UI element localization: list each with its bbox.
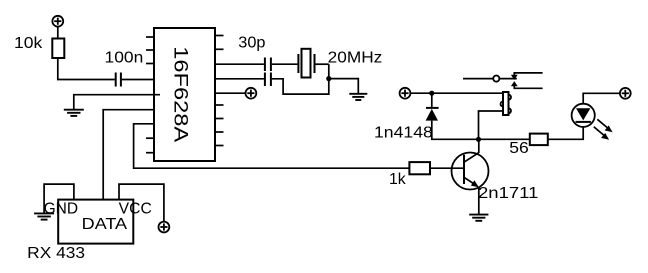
wire RX GND pin to ground — [44, 184, 74, 213]
wire node to resistor 56 — [481, 138, 530, 140]
crystal X1 20MHz — [298, 49, 314, 78]
ground (Q1 emitter) — [469, 215, 488, 221]
wire 100n to U1 pin — [122, 79, 154, 81]
wire coil bottom to collector node — [479, 111, 504, 139]
wire LED anode to power — [583, 93, 620, 103]
ground (left of U1) — [64, 110, 84, 116]
svg-text:VCC: VCC — [119, 200, 152, 217]
Q1 emitter arrow head — [471, 180, 479, 187]
LED light arrow 2 — [594, 127, 609, 140]
node crystal/ground junction — [326, 76, 331, 81]
RX 433 module body — [58, 200, 133, 244]
IC U1 16F628A body — [154, 28, 215, 161]
wire U1 to RX DATA — [103, 110, 154, 200]
wire 30p lower around to crystal right node — [272, 64, 329, 94]
resistor 1k — [409, 162, 430, 174]
svg-text:100n: 100n — [105, 50, 144, 67]
relay coil K1 — [501, 92, 512, 115]
wire diode to collector node rail — [432, 121, 479, 140]
wire 30p upper to crystal — [272, 63, 298, 65]
LED D2 — [572, 104, 595, 127]
wire Q1 emitter down to ground — [478, 187, 480, 215]
relay contact common wire — [463, 78, 493, 80]
ground (RX module) — [34, 213, 54, 219]
svg-text:10k: 10k — [14, 35, 43, 52]
relay contact pivot circle — [493, 76, 499, 82]
svg-text:20MHz: 20MHz — [328, 50, 383, 67]
capacitor 100n — [116, 73, 121, 87]
wire Q1 collector up to node — [478, 139, 480, 153]
svg-text:DATA: DATA — [82, 216, 128, 233]
LED light arrow 1 — [597, 119, 612, 132]
wire U1 to capacitor 30p (lower) — [215, 78, 264, 80]
wire 10k to capacitor 100n — [58, 58, 115, 80]
wire U1 to resistor 1k — [134, 124, 410, 168]
U1 left pin stubs — [146, 37, 154, 153]
svg-text:30p: 30p — [238, 34, 265, 51]
wire U1 to capacitor 30p (upper) — [215, 63, 264, 65]
svg-text:16F628A: 16F628A — [170, 46, 192, 143]
power symbol +V (LED) — [620, 88, 631, 99]
wire ground to U1 pin — [74, 95, 160, 110]
svg-text:2n1711: 2n1711 — [478, 185, 538, 202]
capacitor 30p upper — [265, 58, 271, 72]
svg-text:56: 56 — [509, 140, 529, 157]
svg-text:RX 433: RX 433 — [27, 245, 85, 262]
svg-text:1k: 1k — [389, 171, 406, 188]
wire 1k to Q1 base — [430, 167, 464, 169]
svg-text:GND: GND — [44, 200, 79, 217]
power symbol +V (right of U1) — [246, 88, 257, 99]
relay throw upper (NC) with down arrow — [511, 73, 543, 80]
wire node to ground — [329, 79, 359, 94]
relay contact common to throws — [499, 78, 516, 80]
U1 right pin stubs — [215, 36, 224, 146]
relay throw lower (NO) with up arrow — [511, 81, 543, 88]
node collector junction — [476, 137, 481, 142]
wire U1 to power — [215, 92, 246, 94]
svg-text:1n4148: 1n4148 — [374, 124, 433, 141]
capacitor 30p lower — [265, 73, 271, 87]
power symbol +V (relay supply) — [400, 88, 411, 99]
wire node to diode — [431, 93, 433, 108]
resistor 10k — [52, 39, 64, 59]
power symbol +V (RX supply) — [159, 222, 170, 233]
wire RX VCC pin to power — [119, 184, 164, 222]
transistor Q1 2n1711 — [452, 153, 489, 190]
wire power to relay coil — [410, 92, 503, 94]
wire crystal to node — [316, 63, 329, 65]
node diode/coil junction — [429, 91, 434, 96]
wire 56 to LED — [548, 127, 583, 139]
diode D1 1n4148 — [426, 108, 439, 121]
wire power to R 10k — [57, 27, 59, 39]
resistor 56 — [530, 134, 548, 146]
power symbol +V (top left, above 10k) — [52, 16, 63, 27]
ground (crystal) — [349, 94, 367, 100]
